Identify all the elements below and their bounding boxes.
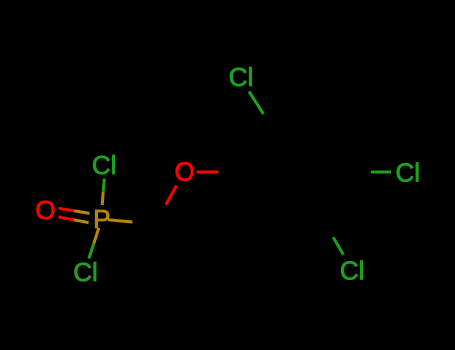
svg-text:P: P <box>93 204 110 234</box>
svg-text:Cl: Cl <box>73 257 98 287</box>
benzene ring bond C1-C2 <box>240 124 268 172</box>
benzene ring double bond C6=C1 inner line <box>252 172 274 210</box>
bond C4-Cl (ring right chlorine), green half near Cl <box>351 171 391 174</box>
bond C1-O ether, red half near O <box>197 171 241 174</box>
double bond P=O, upper line <box>58 208 89 213</box>
bond CH2-P, orange half near P <box>108 220 155 224</box>
benzene ring double bond C4=C5 inner line <box>318 172 340 210</box>
svg-text:Cl: Cl <box>92 150 117 180</box>
bond C5-Cl (ring bottom chlorine), green half near Cl <box>323 220 343 255</box>
double bond P=O, lower line <box>58 217 88 223</box>
bond O ether - CH2, red half near O <box>155 186 177 225</box>
benzene ring bond C3-C4 <box>323 124 351 172</box>
benzene ring bond C4-C5 <box>323 172 351 220</box>
bond P-Cl bottom left, green half near Cl <box>89 228 99 259</box>
svg-text:O: O <box>35 195 55 225</box>
svg-text:O: O <box>174 157 194 187</box>
benzene ring bond C5-C6 <box>268 218 323 221</box>
benzene ring bond C2-C3 <box>268 123 323 126</box>
svg-text:Cl: Cl <box>229 62 254 92</box>
benzene ring bond C6-C1 <box>240 172 268 220</box>
benzene ring double bond C2=C3 inner line <box>274 133 317 136</box>
bond P-Cl top, green half near Cl <box>102 179 104 206</box>
svg-text:Cl: Cl <box>340 256 365 286</box>
svg-text:Cl: Cl <box>396 158 421 188</box>
bond C2-Cl (ring top chlorine), green half near Cl <box>249 92 268 125</box>
